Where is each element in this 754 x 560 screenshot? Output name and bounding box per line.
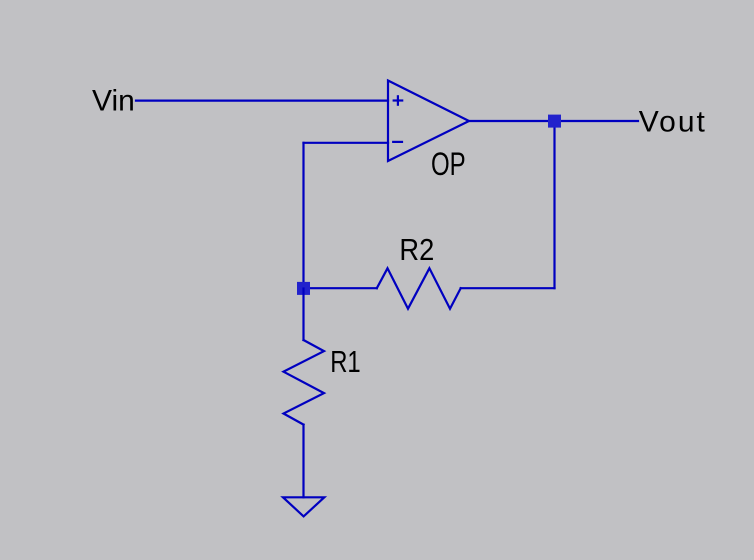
node junction output: [548, 115, 561, 128]
wire feedback bottom right: [461, 287, 555, 289]
op-amp OP: [388, 81, 469, 162]
wire output node down: [553, 121, 555, 288]
resistor R2: [377, 268, 461, 308]
wire R1 to ground: [302, 425, 304, 498]
ground: [283, 497, 324, 516]
svg-text:R1: R1: [330, 344, 361, 379]
resistor R1: [284, 340, 325, 425]
svg-text:Vin: Vin: [92, 85, 135, 118]
wire Vin to op-amp non-inverting input: [136, 99, 388, 101]
wire node to R2: [304, 287, 377, 289]
wire op-amp inverting input: [304, 142, 389, 144]
svg-text:OP: OP: [431, 146, 466, 182]
svg-text:R2: R2: [399, 233, 434, 267]
svg-text:Vout: Vout: [639, 106, 707, 139]
node junction feedback: [297, 282, 310, 295]
wire feedback vertical left: [302, 143, 304, 289]
wire node to R1: [302, 289, 304, 341]
wire op-amp output: [469, 120, 638, 122]
